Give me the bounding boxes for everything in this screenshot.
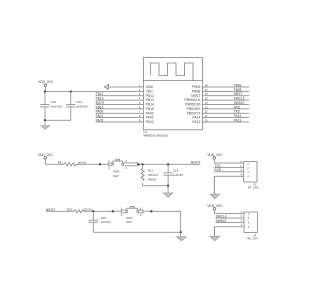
junction at C15 top [92, 210, 94, 212]
svg-text:1: 1 [241, 210, 243, 214]
wire SW4 right to corner [143, 210, 181, 212]
svg-text:C15: C15 [101, 216, 107, 220]
connector J3 4P_1X4 [240, 159, 259, 189]
svg-text:4: 4 [108, 166, 110, 170]
svg-text:4: 4 [248, 225, 250, 229]
svg-text:R0603: R0603 [148, 177, 157, 181]
svg-text:3: 3 [248, 221, 250, 225]
junction at SW3 pin1/4 [99, 163, 101, 165]
svg-text:4: 4 [121, 213, 123, 217]
svg-text:PA14: PA14 [192, 116, 200, 120]
svg-text:PA13: PA13 [234, 118, 242, 122]
svg-text:PA13: PA13 [192, 120, 200, 124]
svg-text:10uF/16V: 10uF/16V [76, 104, 88, 108]
capacitor C13 10uF/16V [66, 92, 88, 121]
svg-text:PB13: PB13 [96, 97, 104, 101]
capacitor C14 1uF/16V [163, 164, 183, 185]
svg-text:2: 2 [241, 214, 243, 218]
ground (J4 pin4) [210, 236, 220, 241]
svg-text:TXD: TXD [234, 110, 241, 114]
svg-text:3: 3 [247, 170, 249, 174]
wire VDD to J3 pin1 [214, 159, 243, 163]
ground (J3 pin4) [210, 194, 220, 199]
junction at ground stub [180, 231, 182, 233]
power symbol VDD_3V3 (J3) [207, 153, 222, 159]
svg-text:PB08: PB08 [192, 90, 200, 94]
svg-text:2: 2 [248, 216, 250, 220]
module U7 WKB5010_MODULE body [143, 57, 202, 137]
svg-text:PA01: PA01 [146, 116, 154, 120]
svg-text:1uF/16V: 1uF/16V [173, 173, 183, 177]
svg-text:PB00/TX: PB00/TX [187, 111, 201, 115]
ground (below C14) [163, 186, 172, 198]
ground (bottom rail) [177, 232, 187, 241]
module left pin numbers 1-9 [139, 83, 141, 122]
svg-text:R13: R13 [67, 208, 73, 212]
svg-text:PA14: PA14 [234, 114, 242, 118]
svg-text:1: 1 [121, 206, 123, 210]
svg-text:1: 1 [248, 212, 250, 216]
wire top VDD rail to module pin2 [45, 91, 143, 93]
junction SW3 right [137, 163, 139, 165]
wire R13 to SW4 [84, 210, 122, 212]
power symbol VDD_3V3 (middle-left) [38, 153, 53, 159]
wire corner down [180, 211, 182, 232]
svg-text:3: 3 [140, 213, 142, 217]
svg-text:PA01: PA01 [96, 114, 104, 118]
svg-text:PB09: PB09 [234, 83, 242, 87]
resistor R12 10K/1% R0603 [141, 164, 158, 185]
wire RXD to J3 pin3 [214, 171, 243, 173]
svg-text:C13: C13 [76, 100, 82, 104]
junction at C13 top [70, 90, 72, 92]
junction at C12 top [44, 90, 46, 92]
ground (under C12) [41, 119, 50, 129]
svg-text:C14: C14 [173, 169, 179, 173]
wires module right pins [202, 87, 249, 122]
svg-text:PB13: PB13 [146, 98, 154, 102]
wire SWDIO to J4 pin3 [216, 221, 245, 223]
svg-text:SW3: SW3 [113, 170, 120, 174]
svg-text:10uF/16V: 10uF/16V [51, 104, 63, 108]
svg-text:KEY: KEY [126, 220, 132, 224]
power symbol VDD_3V3 (J4) [207, 204, 222, 210]
wire bottom rail [93, 231, 180, 233]
svg-text:10K/1%: 10K/1% [148, 173, 159, 177]
module right pin numbers 18-10 [205, 83, 208, 122]
svg-text:1uF/16V: 1uF/16V [101, 220, 111, 224]
capacitor C15 1uF/16V [89, 211, 111, 232]
svg-text:R12: R12 [148, 168, 154, 172]
junction SW4 right [150, 210, 152, 212]
resistor R11 10K/1% [58, 161, 87, 166]
junction ground stub [167, 185, 169, 187]
svg-text:SWDIO: SWDIO [234, 101, 245, 105]
wire R11 to SW3 [76, 163, 109, 165]
ground flag arrow at module pin1 [104, 85, 143, 90]
svg-text:U7: U7 [143, 130, 147, 134]
pushbutton SW3 KEY [108, 159, 137, 178]
svg-text:PB08: PB08 [234, 88, 242, 92]
resistor R13 1K/1% [67, 208, 93, 213]
capacitor C12 10uF/16V [40, 92, 62, 121]
svg-text:PB06/CLK: PB06/CLK [185, 98, 202, 102]
svg-text:VDD: VDD [146, 90, 154, 94]
svg-text:4P_1X4: 4P_1X4 [248, 186, 259, 190]
wire VDD to R11 [45, 163, 64, 165]
svg-text:3: 3 [125, 166, 127, 170]
junction at SW4 left [112, 210, 114, 212]
svg-text:SWCLK: SWCLK [234, 97, 246, 101]
svg-text:2: 2 [247, 166, 249, 170]
wire VDD to J4 pin1 [215, 210, 245, 214]
svg-text:PA02: PA02 [146, 120, 154, 124]
svg-text:PA02: PA02 [96, 118, 104, 122]
svg-text:VDD_3V3: VDD_3V3 [38, 80, 53, 84]
wire NRST to R13 [46, 210, 75, 212]
svg-text:PA00: PA00 [146, 111, 154, 115]
svg-text:KEY: KEY [113, 174, 119, 178]
power symbol VDD_3V3 (top-left) [38, 80, 53, 87]
svg-text:BOOT: BOOT [191, 161, 201, 165]
wire cap bottoms rail [45, 119, 71, 121]
svg-text:2: 2 [140, 206, 142, 210]
junction at C14 top [167, 163, 169, 165]
pushbutton SW4 KEY [121, 206, 144, 224]
svg-text:4: 4 [241, 223, 243, 227]
svg-text:WKB5010_MODULE: WKB5010_MODULE [143, 133, 168, 137]
wire VDD down [44, 159, 46, 164]
wire SW3 to BOOT label [137, 163, 200, 165]
junction at R12 top [141, 163, 143, 165]
svg-text:C12: C12 [51, 100, 57, 104]
svg-text:GND: GND [146, 85, 154, 89]
svg-text:PB09: PB09 [192, 85, 200, 89]
connector J4 4P_1X4 [241, 210, 258, 241]
wires module left pins 3-9 [96, 96, 144, 122]
wire SWCLK to J4 pin2 [216, 217, 245, 219]
wire R12 bottom to C14 bottom [143, 185, 169, 187]
antenna meander inside module [150, 63, 193, 81]
module left pin names [146, 85, 154, 124]
wire J3 pin4 to ground [214, 176, 243, 196]
svg-text:4P_1X4: 4P_1X4 [247, 236, 258, 240]
svg-text:PB14: PB14 [146, 103, 154, 107]
module right pin names [185, 85, 202, 124]
wire J4 pin4 to ground [215, 227, 245, 238]
wire VDD_3V3 to rail [44, 87, 46, 92]
svg-text:3: 3 [241, 219, 243, 223]
svg-text:PB05/DIO: PB05/DIO [185, 103, 201, 107]
svg-text:4: 4 [247, 175, 249, 179]
wire TXD to J3 pin2 [214, 166, 243, 168]
svg-text:BOOT: BOOT [96, 101, 105, 105]
svg-text:R11: R11 [58, 161, 63, 165]
svg-text:PA00: PA00 [96, 110, 104, 114]
